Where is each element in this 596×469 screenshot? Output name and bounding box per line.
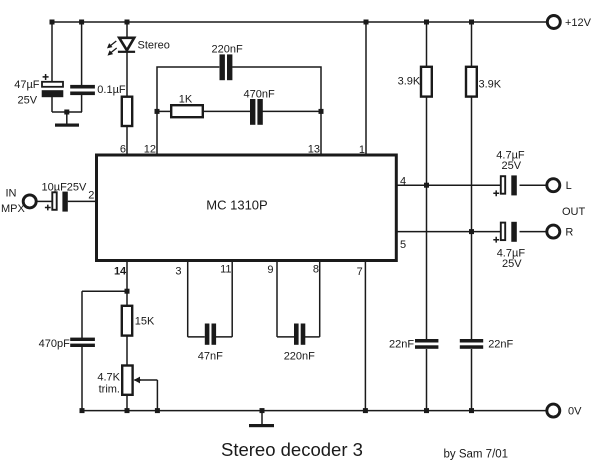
- svg-text:trim.: trim.: [99, 384, 120, 396]
- svg-text:L: L: [566, 180, 572, 192]
- svg-text:Stereo decoder 3: Stereo decoder 3: [221, 439, 363, 460]
- svg-text:220nF: 220nF: [212, 44, 243, 56]
- svg-text:OUT: OUT: [562, 206, 586, 218]
- svg-text:14: 14: [114, 266, 127, 278]
- svg-text:25V: 25V: [18, 94, 38, 106]
- svg-text:10µF25V: 10µF25V: [42, 182, 88, 194]
- svg-text:3: 3: [175, 266, 181, 278]
- svg-text:47nF: 47nF: [198, 350, 223, 362]
- svg-text:7: 7: [357, 266, 363, 278]
- svg-text:15K: 15K: [135, 316, 155, 328]
- svg-text:470nF: 470nF: [244, 88, 275, 100]
- svg-text:1: 1: [359, 144, 365, 156]
- svg-text:47µF: 47µF: [14, 79, 40, 91]
- svg-text:22nF: 22nF: [389, 339, 414, 351]
- svg-text:5: 5: [400, 239, 406, 251]
- svg-text:4.7K: 4.7K: [97, 372, 120, 384]
- svg-text:by Sam 7/01: by Sam 7/01: [444, 448, 509, 460]
- svg-text:11: 11: [220, 264, 231, 276]
- svg-text:2: 2: [88, 189, 94, 201]
- svg-text:1K: 1K: [179, 93, 193, 105]
- svg-text:9: 9: [267, 264, 273, 276]
- svg-text:12: 12: [144, 143, 156, 155]
- svg-text:22nF: 22nF: [488, 339, 513, 351]
- svg-text:8: 8: [313, 264, 319, 276]
- svg-text:0.1µF: 0.1µF: [97, 84, 126, 96]
- svg-text:Stereo: Stereo: [138, 39, 170, 51]
- svg-text:+12V: +12V: [565, 17, 592, 29]
- svg-text:R: R: [565, 227, 573, 239]
- svg-text:3.9K: 3.9K: [398, 76, 421, 88]
- svg-text:MPX: MPX: [1, 203, 26, 215]
- svg-text:220nF: 220nF: [284, 350, 315, 362]
- svg-text:0V: 0V: [568, 406, 582, 418]
- svg-text:4: 4: [400, 175, 406, 187]
- svg-text:25V: 25V: [502, 160, 522, 172]
- svg-text:MC 1310P: MC 1310P: [206, 198, 267, 213]
- svg-text:6: 6: [120, 143, 126, 155]
- svg-text:IN: IN: [6, 188, 17, 200]
- svg-text:3.9K: 3.9K: [479, 78, 502, 90]
- svg-text:470pF: 470pF: [39, 338, 70, 350]
- svg-text:25V: 25V: [502, 258, 522, 270]
- svg-text:13: 13: [308, 143, 320, 155]
